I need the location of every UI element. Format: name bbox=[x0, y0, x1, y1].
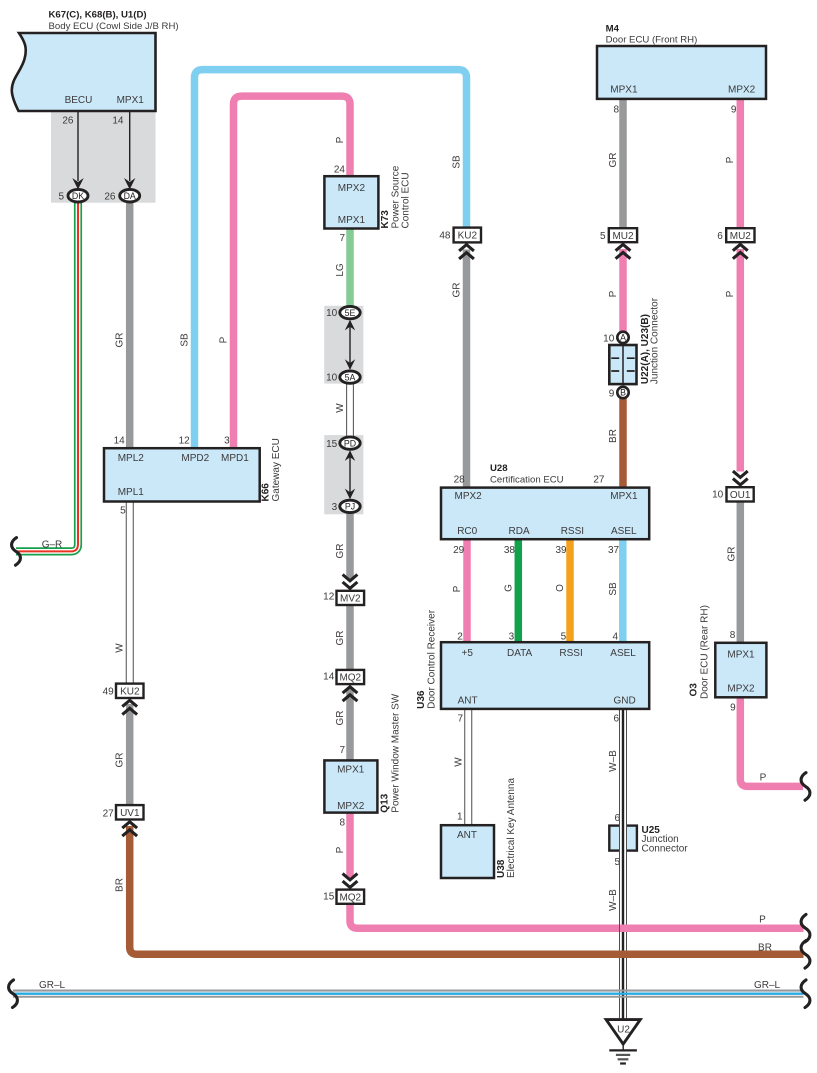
svg-text:MU2: MU2 bbox=[730, 231, 752, 242]
svg-text:SB: SB bbox=[451, 155, 462, 169]
svg-text:U36: U36 bbox=[416, 690, 427, 709]
svg-text:MQ2: MQ2 bbox=[339, 892, 361, 903]
svg-text:26: 26 bbox=[104, 191, 116, 202]
svg-text:+5: +5 bbox=[462, 648, 474, 659]
svg-text:Junction Connector: Junction Connector bbox=[649, 297, 660, 384]
svg-text:MPX1: MPX1 bbox=[117, 95, 145, 106]
svg-text:OU1: OU1 bbox=[730, 490, 751, 501]
svg-text:15: 15 bbox=[326, 439, 338, 450]
svg-text:MPD1: MPD1 bbox=[221, 453, 249, 464]
svg-text:P: P bbox=[725, 290, 736, 297]
svg-text:49: 49 bbox=[103, 687, 115, 698]
svg-text:1: 1 bbox=[457, 811, 463, 822]
svg-text:MQ2: MQ2 bbox=[339, 673, 361, 684]
svg-text:GND: GND bbox=[614, 696, 636, 707]
svg-text:ANT: ANT bbox=[457, 830, 477, 841]
svg-text:W: W bbox=[335, 403, 346, 413]
svg-text:10: 10 bbox=[326, 373, 338, 384]
svg-text:UV1: UV1 bbox=[120, 808, 140, 819]
svg-text:U2: U2 bbox=[617, 1025, 630, 1036]
svg-text:K67(C), K68(B), U1(D): K67(C), K68(B), U1(D) bbox=[49, 9, 147, 20]
svg-text:LG: LG bbox=[335, 263, 346, 277]
svg-text:5: 5 bbox=[600, 231, 606, 242]
svg-text:GR: GR bbox=[335, 631, 346, 646]
svg-text:MPD2: MPD2 bbox=[181, 453, 209, 464]
svg-text:10: 10 bbox=[326, 308, 338, 319]
svg-text:38: 38 bbox=[504, 545, 516, 556]
svg-text:BR: BR bbox=[758, 943, 772, 954]
svg-text:26: 26 bbox=[62, 116, 74, 127]
svg-text:GR: GR bbox=[608, 153, 619, 168]
svg-text:DK: DK bbox=[72, 191, 84, 201]
svg-text:P: P bbox=[335, 846, 346, 853]
svg-text:3: 3 bbox=[332, 502, 338, 513]
svg-text:MV2: MV2 bbox=[340, 594, 361, 605]
svg-text:6: 6 bbox=[613, 713, 619, 724]
svg-text:14: 14 bbox=[323, 672, 335, 683]
svg-text:12: 12 bbox=[323, 592, 335, 603]
svg-text:48: 48 bbox=[439, 231, 451, 242]
svg-text:ASEL: ASEL bbox=[611, 526, 637, 537]
svg-text:A: A bbox=[620, 333, 626, 343]
svg-text:P: P bbox=[608, 290, 619, 297]
svg-text:P: P bbox=[759, 914, 766, 925]
svg-text:MPL1: MPL1 bbox=[118, 487, 145, 498]
svg-text:GR: GR bbox=[115, 333, 126, 348]
svg-text:15: 15 bbox=[323, 892, 335, 903]
svg-text:9: 9 bbox=[731, 105, 737, 116]
svg-text:Door ECU (Rear RH): Door ECU (Rear RH) bbox=[699, 605, 710, 699]
svg-text:MPX1: MPX1 bbox=[610, 491, 638, 502]
svg-text:10: 10 bbox=[712, 490, 724, 501]
svg-text:P: P bbox=[725, 156, 736, 163]
svg-text:DATA: DATA bbox=[507, 648, 533, 659]
svg-text:W: W bbox=[453, 757, 464, 767]
svg-text:4: 4 bbox=[613, 632, 619, 643]
svg-text:GR: GR bbox=[335, 711, 346, 726]
svg-text:5: 5 bbox=[120, 506, 126, 517]
svg-text:Door ECU (Front RH): Door ECU (Front RH) bbox=[606, 35, 698, 46]
svg-text:RSSI: RSSI bbox=[561, 526, 584, 537]
svg-text:ASEL: ASEL bbox=[610, 648, 636, 659]
svg-text:PD: PD bbox=[344, 438, 356, 448]
svg-text:27: 27 bbox=[103, 809, 115, 820]
svg-text:GR: GR bbox=[451, 283, 462, 298]
svg-text:MU2: MU2 bbox=[612, 231, 634, 242]
svg-text:MPX1: MPX1 bbox=[337, 765, 365, 776]
svg-text:K73: K73 bbox=[380, 210, 391, 229]
svg-text:7: 7 bbox=[339, 745, 345, 756]
svg-text:Q13: Q13 bbox=[379, 793, 390, 812]
svg-text:RC0: RC0 bbox=[457, 526, 477, 537]
svg-text:KU2: KU2 bbox=[458, 231, 478, 242]
svg-text:5: 5 bbox=[58, 191, 64, 202]
svg-text:24: 24 bbox=[334, 165, 346, 176]
svg-text:MPX1: MPX1 bbox=[338, 215, 366, 226]
svg-text:BECU: BECU bbox=[65, 95, 93, 106]
svg-text:8: 8 bbox=[339, 817, 345, 828]
svg-text:P: P bbox=[452, 585, 463, 592]
svg-text:MPL2: MPL2 bbox=[118, 453, 145, 464]
svg-text:9: 9 bbox=[609, 389, 615, 400]
svg-text:G: G bbox=[503, 584, 514, 592]
svg-text:Body ECU (Cowl Side J/B RH): Body ECU (Cowl Side J/B RH) bbox=[49, 21, 179, 32]
svg-text:GR–L: GR–L bbox=[754, 980, 781, 991]
svg-text:P: P bbox=[218, 336, 229, 343]
svg-text:PJ: PJ bbox=[345, 502, 355, 512]
svg-text:Connector: Connector bbox=[642, 843, 689, 854]
svg-text:SB: SB bbox=[608, 582, 619, 596]
svg-text:Power Window Master SW: Power Window Master SW bbox=[390, 693, 401, 812]
svg-text:29: 29 bbox=[453, 545, 465, 556]
svg-text:SB: SB bbox=[179, 333, 190, 347]
svg-text:2: 2 bbox=[457, 632, 463, 643]
svg-text:W–B: W–B bbox=[608, 750, 619, 772]
svg-text:MPX2: MPX2 bbox=[727, 684, 755, 695]
svg-text:MPX2: MPX2 bbox=[338, 183, 366, 194]
svg-text:5A: 5A bbox=[345, 372, 356, 382]
svg-text:W: W bbox=[115, 643, 126, 653]
svg-text:O: O bbox=[555, 584, 566, 592]
svg-text:MPX2: MPX2 bbox=[337, 801, 365, 812]
svg-text:BR: BR bbox=[115, 878, 126, 892]
svg-text:MPX1: MPX1 bbox=[610, 85, 638, 96]
svg-text:28: 28 bbox=[454, 474, 466, 485]
svg-text:39: 39 bbox=[555, 545, 567, 556]
svg-text:GR–L: GR–L bbox=[39, 980, 66, 991]
svg-text:9: 9 bbox=[730, 702, 736, 713]
svg-text:8: 8 bbox=[730, 630, 736, 641]
svg-text:Gateway ECU: Gateway ECU bbox=[271, 438, 282, 501]
svg-text:P: P bbox=[335, 136, 346, 143]
svg-text:GR: GR bbox=[335, 544, 346, 559]
svg-text:14: 14 bbox=[112, 116, 124, 127]
svg-text:RDA: RDA bbox=[509, 526, 530, 537]
svg-text:U28: U28 bbox=[490, 463, 508, 474]
svg-text:5: 5 bbox=[561, 632, 567, 643]
svg-text:MPX1: MPX1 bbox=[727, 650, 755, 661]
svg-text:P: P bbox=[760, 773, 767, 784]
svg-text:BR: BR bbox=[608, 429, 619, 443]
svg-text:7: 7 bbox=[339, 233, 345, 244]
svg-text:37: 37 bbox=[608, 545, 620, 556]
svg-text:5E: 5E bbox=[345, 308, 356, 318]
svg-text:12: 12 bbox=[179, 436, 191, 447]
svg-text:Electrical Key Antenna: Electrical Key Antenna bbox=[506, 778, 517, 878]
svg-text:M4: M4 bbox=[606, 23, 620, 34]
svg-text:Control ECU: Control ECU bbox=[401, 172, 412, 228]
svg-text:DA: DA bbox=[124, 191, 136, 201]
svg-text:MPX2: MPX2 bbox=[455, 491, 483, 502]
svg-text:3: 3 bbox=[224, 436, 230, 447]
svg-text:6: 6 bbox=[717, 231, 723, 242]
svg-text:27: 27 bbox=[593, 474, 605, 485]
svg-text:14: 14 bbox=[114, 436, 126, 447]
svg-text:GR: GR bbox=[727, 547, 738, 562]
svg-text:ANT: ANT bbox=[458, 696, 478, 707]
svg-text:O3: O3 bbox=[689, 683, 700, 697]
svg-text:5: 5 bbox=[614, 857, 620, 868]
svg-text:Door Control Receiver: Door Control Receiver bbox=[427, 609, 438, 709]
svg-text:W–B: W–B bbox=[608, 889, 619, 911]
svg-text:3: 3 bbox=[509, 632, 515, 643]
svg-text:G–R: G–R bbox=[42, 539, 63, 550]
svg-text:GR: GR bbox=[115, 753, 126, 768]
svg-text:8: 8 bbox=[613, 105, 619, 116]
svg-text:7: 7 bbox=[457, 713, 463, 724]
svg-text:Certification ECU: Certification ECU bbox=[490, 475, 564, 486]
svg-text:10: 10 bbox=[603, 334, 615, 345]
svg-text:6: 6 bbox=[614, 813, 620, 824]
svg-text:B: B bbox=[620, 388, 626, 398]
svg-text:KU2: KU2 bbox=[120, 686, 140, 697]
svg-text:RSSI: RSSI bbox=[559, 648, 582, 659]
svg-text:MPX2: MPX2 bbox=[728, 85, 756, 96]
